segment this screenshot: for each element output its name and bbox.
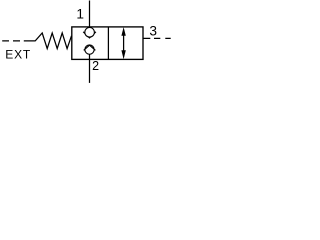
svg-text:1: 1 (76, 7, 84, 22)
svg-text:EXT: EXT (5, 47, 31, 61)
svg-text:3: 3 (149, 24, 157, 39)
svg-text:2: 2 (92, 59, 99, 73)
